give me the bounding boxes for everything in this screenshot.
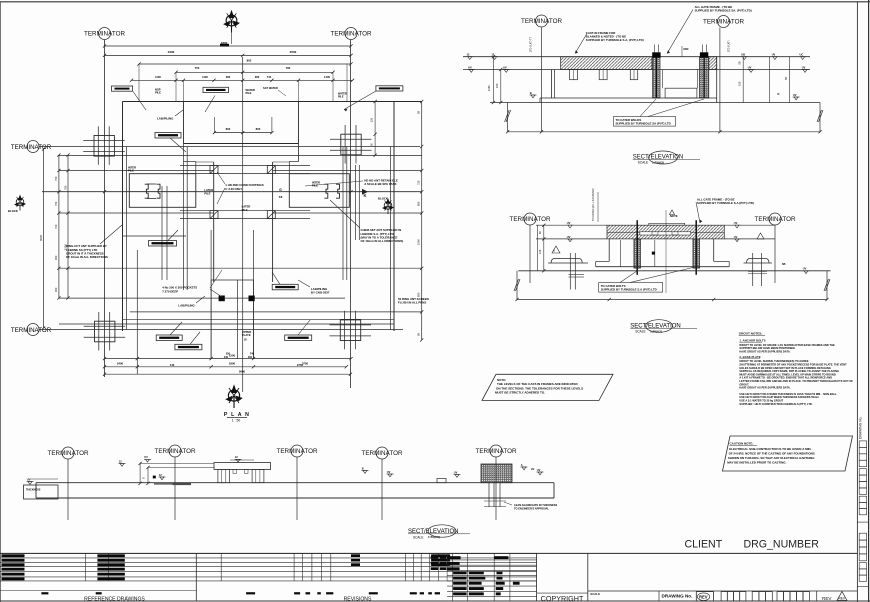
plan label box piling mid-left [149, 241, 177, 247]
plan label box piling lower-right [285, 335, 312, 341]
right margin box stack 4 [859, 533, 866, 540]
svg-text:7 270 DEEP: 7 270 DEEP [162, 289, 178, 293]
section2 gridline A terminator [524, 213, 536, 225]
svg-text:750: 750 [416, 180, 420, 185]
plan recess step left [184, 143, 196, 145]
svg-text:740: 740 [170, 363, 175, 367]
svg-text:BY CNO-2037: BY CNO-2037 [311, 291, 330, 295]
svg-text:460: 460 [248, 356, 253, 359]
svg-text:TERMINATOR: TERMINATOR [276, 448, 317, 455]
svg-text:B: B [530, 91, 532, 95]
svg-text:UV: UV [537, 468, 541, 472]
plan left pocket holding-down bolts [145, 184, 149, 198]
plan top dimension line 4800 [105, 45, 352, 47]
plan left dimension line outer [67, 155, 69, 298]
svg-text:UV: UV [734, 221, 738, 225]
section2 dimension line bottom [517, 299, 827, 301]
plan gridline B [349, 40, 351, 388]
svg-text:OF 10mm IN ALL DIRECTIONS): OF 10mm IN ALL DIRECTIONS) [361, 239, 404, 243]
svg-text:BLOCK: BLOCK [8, 209, 18, 213]
section2 left vertical dims [537, 225, 539, 271]
svg-text:780: 780 [286, 66, 291, 70]
svg-text:UV: UV [27, 477, 31, 481]
svg-text:UV: UV [734, 235, 738, 239]
right margin division lines [857, 521, 868, 523]
svg-text:TERMINATOR: TERMINATOR [475, 448, 516, 455]
plan lower pocket extension vertical [136, 250, 138, 374]
plan recess extension stubs [183, 80, 185, 102]
plan mid horizontals right [273, 170, 422, 172]
svg-text:B: B [362, 466, 364, 470]
section2 extension lines right [724, 224, 775, 226]
svg-text:UB: UB [741, 53, 745, 57]
section2 anchor bolt rod right [695, 220, 697, 275]
svg-text:1 : 50: 1 : 50 [232, 419, 241, 423]
svg-text:150: 150 [738, 81, 742, 86]
plan central pedestal [180, 165, 310, 167]
section1 footing bottom [540, 97, 717, 99]
svg-text:380: 380 [255, 75, 260, 79]
svg-text:CAUTION NOTE:: CAUTION NOTE: [730, 442, 754, 446]
svg-text:PILE: PILE [204, 191, 210, 195]
title block top line [0, 552, 857, 554]
svg-text:1100: 1100 [155, 75, 161, 79]
elevation gridline 3 terminator [291, 445, 303, 457]
section1 right dim verticals [742, 57, 744, 103]
section2 gridline A line [529, 225, 531, 283]
svg-text:UV: UV [803, 267, 807, 271]
svg-text:PILE: PILE [155, 91, 161, 95]
svg-text:150: 150 [370, 117, 373, 122]
svg-text:1100: 1100 [202, 75, 208, 79]
svg-text:802: 802 [247, 59, 252, 63]
section2 anchor assembly left [551, 258, 582, 263]
svg-text:SCALE: SCALE [635, 330, 645, 334]
section2 ground line [518, 270, 830, 272]
plan gridline A terminator [99, 28, 111, 40]
plan gridline 2 [39, 329, 403, 331]
plan bottom dimension line row3 [105, 373, 351, 375]
svg-text:(TO SUIT): (TO SUIT) [728, 40, 731, 52]
svg-text:UV: UV [567, 235, 571, 239]
plan column B1 [341, 134, 361, 155]
svg-text:PILE: PILE [128, 169, 134, 173]
section1 gridline A terminator [536, 15, 548, 27]
svg-text:REV: REV [839, 597, 846, 601]
drawing number boxes group3 [777, 592, 784, 601]
plan top recess [183, 102, 185, 144]
section1 gridline B terminator [718, 16, 730, 28]
elevation slab band [36, 482, 554, 484]
revisions table [196, 552, 536, 554]
svg-text:3750: 3750 [302, 362, 309, 366]
plan pedestal anchor squares row alignment [210, 230, 212, 280]
plan label box piling lower-left [156, 335, 182, 341]
plan column A2 [95, 321, 115, 342]
section1 cast-in channel left [653, 57, 660, 98]
svg-text:5000: 5000 [239, 369, 246, 373]
plan right footing pocket [289, 174, 349, 208]
svg-text:UV: UV [387, 470, 391, 474]
svg-text:REV: REV [822, 596, 832, 601]
plan right recess dim vertical [374, 102, 376, 156]
elevation gridline 4 [381, 459, 383, 520]
plan long verticals left [183, 144, 185, 291]
svg-text:UV: UV [468, 65, 472, 69]
section1 pocket 2 [599, 70, 607, 80]
section1 wall right edge [716, 57, 718, 103]
plan left dimension line 6000 [43, 149, 45, 328]
elevation gridline 2 terminator [169, 445, 181, 457]
elevation left dim verticals [139, 463, 141, 483]
svg-text:744: 744 [267, 75, 272, 79]
elevation gridline 4 terminator [376, 447, 388, 459]
svg-text:HAVE GROUT AS PER SUPPLIERS DA: HAVE GROUT AS PER SUPPLIERS DATA. [739, 386, 790, 390]
section1 beam bottom line [463, 69, 810, 71]
svg-text:DRAWING No.: DRAWING No. [662, 594, 693, 599]
svg-text:HAVE GROUT AS PER SUPPLIERS DA: HAVE GROUT AS PER SUPPLIERS DATA. [739, 349, 790, 353]
svg-text:800: 800 [226, 127, 231, 131]
svg-text:GROUT NOTES:: GROUT NOTES: [739, 331, 763, 335]
svg-text:SUPPLIED BY TURNSOLE SA (PVT): SUPPLIED BY TURNSOLE SA (PVT) LTD [616, 122, 671, 126]
drawing number boxes group2 [752, 592, 759, 601]
plan gridline A [104, 40, 106, 377]
plan bottom dimension line row1 [105, 358, 352, 360]
svg-text:PILE: PILE [338, 96, 344, 99]
plan dim extension stubs [138, 64, 140, 102]
svg-text:700: 700 [54, 224, 58, 229]
svg-text:K: K [778, 92, 780, 96]
svg-text:4300: 4300 [168, 50, 175, 54]
plan label box piling lower-mid [272, 284, 298, 290]
svg-text:TERMINATOR: TERMINATOR [754, 216, 795, 223]
svg-text:1160: 1160 [487, 85, 491, 91]
plan label box piling left [155, 133, 181, 139]
signature table top-row entries [431, 556, 439, 559]
section2 anchor assembly right [747, 258, 770, 263]
section1 pocket 1 [570, 70, 578, 80]
plan top dimension line 750 [176, 71, 333, 73]
plan column B2 [340, 320, 360, 341]
svg-text:450: 450 [54, 287, 58, 292]
plan pedestal anchor pocket bottom-right [267, 211, 275, 219]
right margin box stack 2 [859, 469, 866, 475]
plan column A1 [94, 136, 114, 157]
svg-text:760: 760 [63, 185, 67, 190]
signature table [447, 559, 536, 561]
svg-text:UV: UV [454, 470, 458, 474]
svg-text:TERMINATOR: TERMINATOR [330, 31, 371, 38]
section1 anchor bolt rod left [655, 57, 657, 98]
section1 dimension line bottom [508, 131, 820, 133]
svg-text:PILE: PILE [312, 184, 318, 188]
section2 gridline B terminator [769, 213, 781, 225]
svg-text:CLIENT: CLIENT [685, 538, 723, 550]
svg-text:TERMINATOR: TERMINATOR [154, 448, 195, 455]
svg-text:UC: UC [800, 53, 804, 57]
plan long verticals right [342, 147, 344, 281]
reference drawings table [0, 552, 196, 554]
section2 anchor bolt rod left [636, 220, 638, 275]
svg-text:SB: SB [782, 263, 786, 266]
plan label box piling top-centre [203, 87, 229, 92]
elevation gridline 3 [296, 457, 298, 520]
plan right dimension line [421, 102, 423, 341]
signature table name entries [453, 571, 467, 574]
svg-text:DRG_NUMBER: DRG_NUMBER [744, 539, 820, 551]
svg-text:LAB/PILING: LAB/PILING [157, 117, 174, 121]
svg-text:NSF: NSF [684, 47, 690, 51]
section2 beam centre recess [640, 232, 691, 235]
section1 gap pocket [662, 70, 664, 89]
svg-text:TERMINATOR: TERMINATOR [703, 19, 744, 26]
plan bottom dimension line row2 [105, 366, 347, 368]
svg-text:TERMINATOR: TERMINATOR [509, 216, 550, 223]
elevation left thin pad [154, 483, 173, 485]
svg-text:UV: UV [144, 455, 148, 459]
plan lower pocket anchor bolt left [219, 296, 225, 302]
svg-text:SCALE: SCALE [590, 592, 600, 596]
svg-text:SUPPLIED BY TURNSOLE S.A (PVT): SUPPLIED BY TURNSOLE S.A (PVT) LTD) [697, 201, 754, 205]
section1 ground line [490, 102, 820, 104]
elevation gridline 1 terminator [62, 447, 74, 459]
svg-text:TERMINATOR: TERMINATOR [11, 327, 52, 334]
elevation gridline 1 [67, 459, 69, 520]
plan outer slab outline [123, 101, 422, 103]
plan label box reinforced top-left [112, 86, 133, 91]
section2 centreline [665, 210, 667, 293]
svg-text:K: K [363, 193, 366, 198]
section1 left dim verticals [493, 57, 495, 103]
plan top dimension line 802 [139, 63, 351, 65]
svg-text:A: A [521, 463, 523, 467]
svg-text:UV: UV [567, 221, 571, 225]
svg-text:REFERENCE DRAWINGS: REFERENCE DRAWINGS [84, 596, 145, 602]
svg-text:750: 750 [54, 201, 58, 206]
svg-text:1400: 1400 [324, 75, 330, 79]
svg-text:1. ANCHOR BOLTS: 1. ANCHOR BOLTS [739, 339, 765, 343]
svg-text:A: A [553, 250, 555, 253]
plan label box piling top-right [376, 86, 403, 91]
svg-text:450: 450 [54, 255, 58, 260]
right margin box stack 1 [859, 441, 866, 447]
svg-text:BLOCK: BLOCK [378, 197, 388, 201]
plan bottom compass [225, 384, 243, 408]
section1 beam top line [463, 56, 810, 58]
revisions bottom ticks [246, 592, 255, 594]
svg-text:SUPPLIER : HILTI CONSTRUCTION: SUPPLIER : HILTI CONSTRUCTION CHEMICALS … [739, 402, 812, 406]
section1 hatched beam right [709, 57, 717, 70]
svg-text:1800: 1800 [229, 362, 236, 366]
section1 wall left edge [551, 70, 553, 99]
svg-text:1500: 1500 [416, 239, 420, 245]
section2 extension lines left [536, 224, 607, 226]
svg-text:380: 380 [226, 75, 231, 79]
section2 hatched beam [607, 225, 724, 239]
plan long horizontal y155 [59, 154, 422, 156]
svg-text:2400: 2400 [117, 362, 124, 366]
section1 pocket 3 [630, 70, 637, 80]
svg-text:TERMINATOR: TERMINATOR [84, 31, 125, 38]
plan lower pocket anchor bolt right [249, 296, 255, 302]
levels note parallelogram [482, 374, 613, 400]
svg-text:SUPPLIED BY TURNSOLE S.A. (PVT: SUPPLIED BY TURNSOLE S.A. (PVT) LTD) [586, 38, 644, 42]
svg-text:PILE: PILE [242, 208, 248, 212]
svg-text:TERMINATOR: TERMINATOR [11, 144, 52, 151]
svg-text:TERMINATOR: TERMINATOR [361, 450, 402, 457]
svg-text:DRAWING No.: DRAWING No. [859, 416, 863, 439]
svg-text:6000: 6000 [39, 234, 43, 241]
svg-text:OF 10mm IN ALL DIRECTIONS: OF 10mm IN ALL DIRECTIONS [66, 255, 108, 259]
svg-text:FLUSH IN ALL PENS: FLUSH IN ALL PENS [398, 301, 426, 305]
elevation gridline 2 [174, 457, 176, 520]
copyright cell [536, 553, 538, 601]
svg-text:SAT WATER: SAT WATER [263, 86, 278, 90]
plan gridline B terminator [345, 28, 357, 40]
svg-text:REV: REV [699, 595, 708, 600]
section1 break vertical left [507, 103, 509, 132]
elevation extension lines to pedestal [140, 462, 214, 464]
plan top dimension line row5 [132, 79, 353, 81]
plan block symbol left [14, 194, 26, 210]
svg-text:TERMINATOR: TERMINATOR [521, 18, 562, 25]
svg-text:5/8: 5/8 [279, 195, 283, 199]
svg-text:TO ENGINEER'S APPROVAL: TO ENGINEER'S APPROVAL [514, 506, 549, 510]
section2 break vertical right [826, 271, 828, 300]
elevation gridline 5 [495, 457, 497, 520]
plan vertical centreline [242, 57, 244, 392]
caution note parallelogram [723, 436, 853, 471]
right margin box stack 5 [859, 563, 866, 569]
section1 gridline B line [719, 28, 721, 132]
svg-text:4800: 4800 [221, 41, 228, 45]
right margin box stack 3 [859, 496, 866, 502]
svg-text:SUPPLIED BY TURNSOLE S.A (PVT): SUPPLIED BY TURNSOLE S.A (PVT) LTD [601, 288, 657, 292]
svg-text:150: 150 [495, 83, 499, 88]
section1 break vertical right [819, 103, 821, 132]
plan left footing pocket [129, 174, 196, 208]
svg-text:AV: AV [531, 468, 535, 471]
plan pedestal anchor pocket bottom-left [210, 211, 218, 219]
svg-text:SCALE: SCALE [413, 535, 423, 539]
svg-text:LAB/PILING: LAB/PILING [178, 304, 195, 308]
svg-text:TO CATER (12 + SUSPEND): TO CATER (12 + SUSPEND) [592, 188, 595, 221]
plan recess step right [298, 144, 300, 162]
svg-text:UV: UV [793, 93, 797, 97]
plan top dimension line 4000 [105, 54, 352, 56]
svg-text:UV: UV [772, 53, 776, 57]
section2 cast-in channel right [693, 239, 700, 268]
svg-text:ELECTRICAL SUB-CONTRACTOR IS T: ELECTRICAL SUB-CONTRACTOR IS TO BE GIVEN… [729, 447, 811, 451]
plan block symbol right [382, 198, 394, 214]
svg-text:MAY BE INSTALLED PRIOR TO CAST: MAY BE INSTALLED PRIOR TO CASTING. [727, 461, 786, 465]
drawing number rev box [696, 592, 713, 601]
svg-text:750: 750 [54, 176, 58, 181]
svg-text:750: 750 [195, 66, 200, 70]
elevation centre pedestal [214, 463, 271, 470]
section2 gridline B line [774, 225, 776, 283]
section1 gridline A line [541, 28, 543, 132]
plan label box piling lower-left2 [175, 344, 202, 350]
plan recess inner dimension [214, 132, 272, 134]
plan north compass [223, 10, 240, 33]
svg-text:MUST BE STRICTLY ADHERED TO.: MUST BE STRICTLY ADHERED TO. [495, 391, 545, 395]
elevation right anchor bolts [488, 483, 490, 507]
svg-text:UV: UV [503, 65, 507, 69]
plan anchor verticals left pair [161, 186, 163, 280]
rev triangle [837, 592, 847, 601]
elevation gridline 5 terminator [490, 445, 502, 457]
section1 anchor bolt rod right [703, 57, 705, 98]
drawing number cell [658, 591, 660, 601]
svg-text:LETTER FOUND FAILURE AND BE AN: LETTER FOUND FAILURE AND BE AND IN PLACE… [739, 379, 853, 383]
scale cell [588, 590, 858, 592]
svg-text:UV: UV [802, 65, 806, 69]
drawing number boxes group1 [721, 592, 727, 601]
svg-text:UV: UV [748, 65, 752, 69]
svg-text:2. BASE PLATE: 2. BASE PLATE [739, 355, 760, 359]
svg-text:OF 24 HRS. NOTICE OF THE CASTI: OF 24 HRS. NOTICE OF THE CASTING OF ANY … [729, 451, 815, 455]
plan pedestal anchor pocket top-right [267, 166, 275, 174]
plan left dimension line inner [58, 155, 60, 298]
svg-text:A SCALE BE SPA PASS: A SCALE BE SPA PASS [364, 182, 396, 186]
plan right pocket holding-down bolts [324, 184, 328, 198]
svg-text:850: 850 [416, 201, 420, 206]
elevation right pedestal [481, 464, 512, 483]
svg-text:C 3-DI ONLY: C 3-DI ONLY [225, 187, 242, 191]
elevation small dim left [230, 459, 254, 461]
plan lower horizontals [123, 235, 187, 237]
svg-text:SCALE: SCALE [638, 161, 648, 165]
svg-text:REVISIONS: REVISIONS [344, 597, 372, 602]
section2 wall outline [608, 239, 610, 262]
plan horizontal centreline [42, 191, 422, 193]
svg-text:G: G [279, 188, 282, 192]
svg-text:(TO SUIT) TT: (TO SUIT) TT [530, 36, 533, 52]
section2 cast-in channel left [634, 239, 641, 268]
sheet border frame [0, 1, 870, 3]
plan lower pocket [210, 280, 212, 359]
elevation small kerb [437, 479, 446, 483]
plan pedestal anchor pocket top-left [210, 166, 218, 174]
svg-text:125: 125 [538, 249, 542, 254]
svg-text:SHOWN ON THIS DRG, SO THAT ANY: SHOWN ON THIS DRG, SO THAT ANY ELECTRICA… [728, 456, 815, 460]
rev divider [816, 591, 818, 601]
reference drawings bottom ticks [0, 590, 196, 592]
svg-text:THICKNESS: THICKNESS [26, 489, 41, 492]
plan pocket top links [196, 161, 214, 163]
svg-text:COPYRIGHT: COPYRIGHT [541, 594, 584, 602]
svg-text:800: 800 [256, 127, 261, 131]
svg-text:PILE: PILE [246, 91, 252, 95]
elevation left step [24, 485, 59, 499]
svg-text:440: 440 [224, 356, 229, 359]
plan mid horizontals left [59, 170, 214, 172]
svg-text:2500: 2500 [290, 50, 297, 54]
svg-text:SUPPLIED BY TURNSOLE SA. (PVT): SUPPLIED BY TURNSOLE SA. (PVT) LTD) [695, 9, 752, 13]
section1 cast-in channel right [700, 57, 709, 98]
section1 hatched beam left [561, 57, 652, 70]
section2 beam top plate [649, 223, 685, 225]
section2 break vertical left [516, 271, 518, 300]
svg-text:PLATE: PLATE [242, 333, 251, 337]
plan gridline 1 [39, 146, 420, 148]
svg-text:TERMINATOR: TERMINATOR [47, 450, 88, 457]
